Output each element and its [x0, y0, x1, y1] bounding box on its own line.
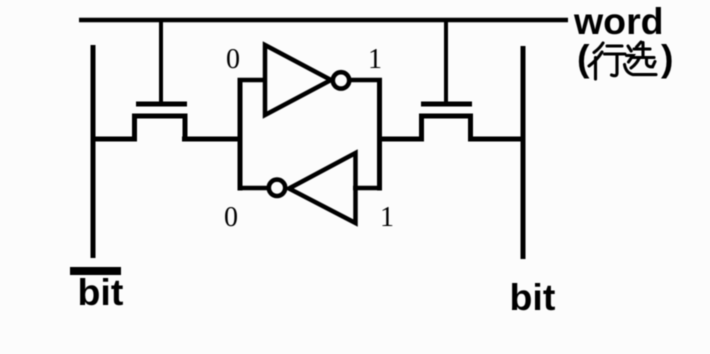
net label: bit-bar overline	[70, 267, 121, 275]
net label: Chinese character 选 (select) hand-drawn	[625, 42, 657, 75]
transistor Q2 channel (source/drain staircase)	[422, 116, 471, 141]
op-amp symbol: inverter U1 triangle (points right)	[265, 45, 331, 115]
wire: node B to Q2 source	[377, 137, 424, 142]
transistor Q1 (left access NMOS) gate connection wire from word line	[159, 20, 163, 102]
net label: Chinese character 行 (row) hand-drawn	[589, 43, 625, 79]
wire: Q1 drain to node A	[182, 137, 243, 142]
transistor Q2 (right access NMOS) gate connection wire from word line	[444, 20, 448, 102]
op-amp symbol: inverter U2 triangle (points left)	[289, 153, 356, 223]
transistor Q1 channel (source/drain staircase)	[135, 116, 186, 141]
svg-text:1: 1	[368, 44, 382, 75]
wire: top inverter output stub	[349, 78, 382, 83]
svg-text:bit: bit	[510, 276, 556, 318]
transistor Q2 gate bar	[421, 102, 472, 107]
wire: node B vertical rail (right side of latch)	[377, 78, 382, 191]
wire: top inverter input stub	[238, 78, 267, 83]
inverter U2 output bubble	[269, 180, 285, 196]
svg-text:word: word	[573, 0, 664, 42]
wire: bottom inverter output stub	[238, 186, 270, 191]
svg-text:(: (	[577, 37, 590, 79]
transistor Q1 gate bar	[136, 102, 187, 107]
svg-text:1: 1	[380, 202, 394, 233]
wire: left bit-bar line (vertical)	[91, 45, 96, 258]
wire: node A vertical rail (left side of latch)	[238, 78, 243, 191]
wire: Q2 drain to bit line	[468, 137, 525, 142]
wire: bottom inverter input stub	[353, 186, 382, 191]
svg-text:0: 0	[226, 44, 240, 75]
inverter U1 output bubble	[333, 72, 349, 88]
svg-text:): )	[661, 37, 674, 79]
wire: right bit line (vertical)	[521, 46, 526, 259]
wire: bit-bar to Q1 source	[91, 137, 137, 142]
svg-text:0: 0	[224, 202, 238, 233]
svg-text:bit: bit	[78, 271, 124, 313]
wire: word line (horizontal row-select net)	[79, 18, 568, 23]
